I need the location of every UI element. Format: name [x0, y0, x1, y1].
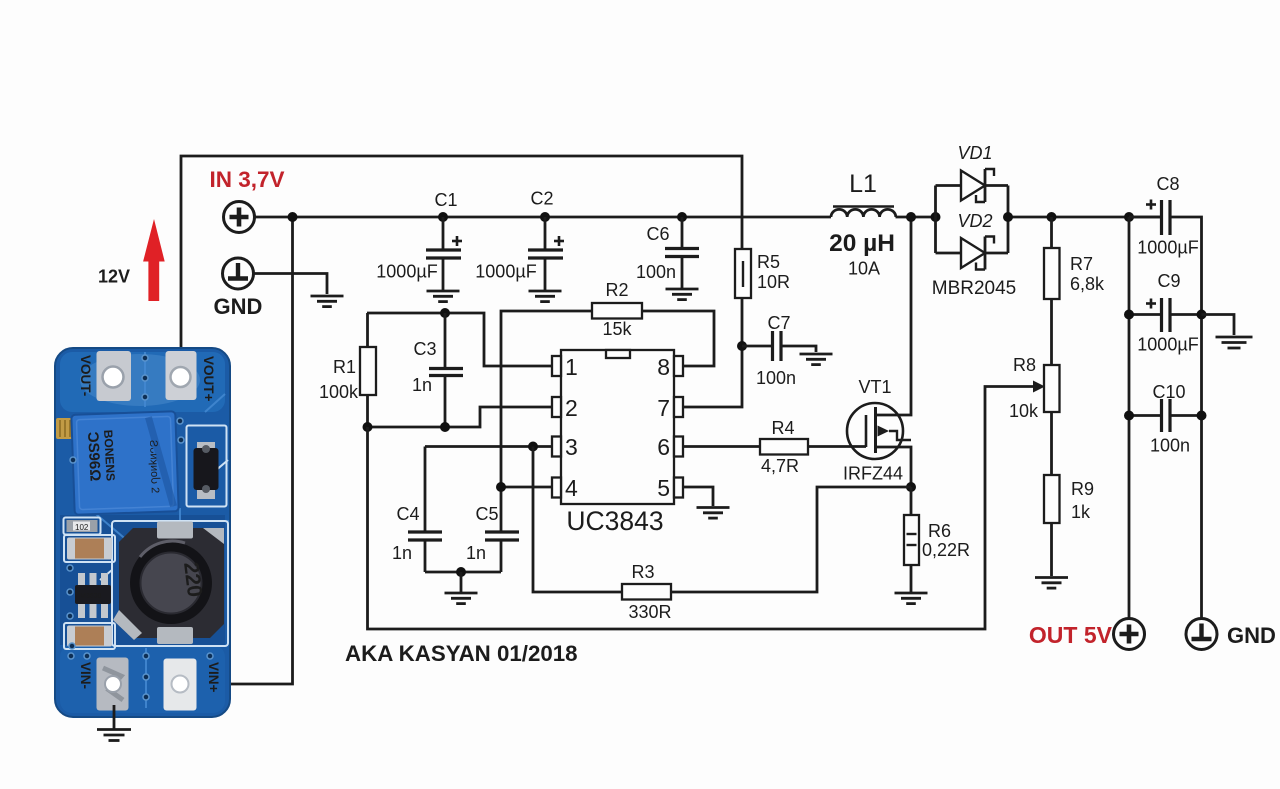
- svg-text:6: 6: [657, 434, 670, 460]
- pin 8 box: [674, 356, 683, 376]
- capacitor C6: [665, 217, 699, 288]
- svg-text:1: 1: [565, 354, 578, 380]
- svg-text:20 µH: 20 µH: [829, 230, 895, 257]
- svg-text:220: 220: [179, 561, 206, 599]
- svg-text:4,7R: 4,7R: [761, 456, 799, 476]
- module inductor winding: [130, 541, 212, 624]
- svg-text:VOUT+: VOUT+: [201, 356, 216, 402]
- svg-text:5: 5: [657, 475, 670, 501]
- module SMD capacitor upper: [67, 538, 112, 560]
- capacitor C5: [485, 487, 519, 572]
- wire: main top rail left: [255, 216, 832, 219]
- node: source/R6 junction: [906, 482, 916, 492]
- wire: R2 left down to pin 4: [501, 311, 592, 487]
- svg-text:R8: R8: [1013, 355, 1036, 375]
- svg-text:8: 8: [657, 354, 670, 380]
- svg-text:7: 7: [657, 395, 670, 421]
- capacitor C1: [426, 217, 462, 290]
- wire: module VIN+ to input + node: [180, 217, 293, 684]
- svg-text:IRFZ44: IRFZ44: [843, 464, 903, 484]
- wire: diode pair right bar: [1007, 186, 1010, 254]
- node: R1 bottom: [363, 422, 373, 432]
- svg-text:10A: 10A: [848, 259, 880, 279]
- resistor R2: [592, 303, 642, 319]
- svg-text:100n: 100n: [756, 368, 796, 388]
- pin 4 box: [552, 478, 561, 498]
- IC U1 UC3843 body: [561, 350, 674, 504]
- module SMD capacitor lower: [67, 626, 112, 647]
- node: C3 bottom: [440, 422, 450, 432]
- capacitor C2: [528, 217, 564, 290]
- svg-text:R7: R7: [1070, 254, 1093, 274]
- svg-text:3: 3: [565, 434, 578, 460]
- svg-text:0,22R: 0,22R: [922, 540, 970, 560]
- svg-text:M3608: M3608: [80, 593, 102, 600]
- 12V arrow: [143, 219, 165, 301]
- ground: R9: [1035, 578, 1068, 589]
- svg-text:BONENS: BONENS: [101, 429, 118, 481]
- ground: R6: [895, 593, 928, 604]
- wire: GND terminal to ground: [254, 274, 328, 295]
- svg-text:C7: C7: [767, 313, 790, 333]
- potentiometer R8: [1033, 365, 1060, 475]
- module pad VIN+: [164, 659, 197, 711]
- svg-text:100n: 100n: [1150, 436, 1190, 456]
- wire: junction stem to ground: [460, 572, 463, 592]
- ground: C6: [666, 289, 699, 300]
- ground: C7: [800, 354, 833, 365]
- wire: pin 6 to R4: [683, 445, 760, 448]
- ground: module: [97, 705, 131, 741]
- wire: pin 4 to timing net: [501, 486, 552, 489]
- svg-text:102: 102: [75, 523, 89, 532]
- wire: FB node to pin 2: [367, 407, 552, 427]
- wire: R4 to gate: [808, 445, 866, 448]
- terminal IN +: [224, 202, 255, 233]
- svg-text:10k: 10k: [1009, 401, 1039, 421]
- node: input junction: [288, 212, 298, 222]
- svg-text:C10: C10: [1152, 382, 1185, 402]
- wire: output left column: [1128, 217, 1131, 618]
- svg-text:C6: C6: [646, 224, 669, 244]
- svg-text:R2: R2: [605, 280, 628, 300]
- module resistor 102: [67, 520, 98, 532]
- module SOT-23 diode body: [194, 442, 219, 499]
- diode VD1 MBR2045: [936, 169, 1009, 202]
- svg-text:VD2: VD2: [957, 211, 992, 231]
- node: C1 tap: [438, 212, 448, 222]
- svg-text:C8: C8: [1156, 174, 1179, 194]
- node: C10 left: [1124, 411, 1134, 421]
- svg-text:2: 2: [565, 395, 578, 421]
- svg-text:R1: R1: [333, 357, 356, 377]
- svg-text:R4: R4: [771, 418, 794, 438]
- node: C9 left: [1124, 310, 1134, 320]
- resistor R9: [1044, 475, 1060, 576]
- svg-text:VD1: VD1: [957, 143, 992, 163]
- resistor R1: [360, 313, 376, 427]
- node: C9 right: [1197, 310, 1207, 320]
- resistor R7: [1044, 217, 1060, 365]
- ground: C4/C5: [445, 593, 478, 604]
- wire: L1 to diode block: [896, 216, 937, 219]
- wire: FB node down and across to R8 wiper: [368, 387, 1034, 630]
- inductor L1: [831, 207, 896, 218]
- svg-text:C4: C4: [396, 504, 419, 524]
- diode VD2 MBR2045: [936, 237, 1009, 270]
- capacitor C10: [1129, 399, 1202, 432]
- node: C2 tap: [540, 212, 550, 222]
- wire: output rail: [1008, 216, 1161, 219]
- pin 5 box: [674, 478, 683, 498]
- wire: R3 left up to pin 3: [533, 447, 622, 593]
- module traces: [60, 352, 228, 708]
- resistor R3: [622, 584, 671, 600]
- wire: pin 3 sense wire: [425, 445, 552, 448]
- capacitor C9: [1129, 298, 1202, 332]
- svg-text:6,8k: 6,8k: [1070, 274, 1105, 294]
- svg-text:1k: 1k: [1071, 502, 1091, 522]
- svg-text:1000µF: 1000µF: [1137, 335, 1198, 355]
- ground: input: [311, 296, 344, 307]
- svg-text:L1: L1: [849, 170, 877, 198]
- pin 3 box: [552, 437, 561, 457]
- node: C10 right: [1197, 411, 1207, 421]
- resistor R6: [904, 487, 919, 592]
- svg-text:C1: C1: [434, 190, 457, 210]
- terminal OUT +: [1114, 619, 1145, 650]
- svg-text:12V: 12V: [98, 267, 130, 287]
- terminal OUT GND: [1186, 619, 1217, 650]
- wire: pin 5 to ground: [683, 487, 713, 506]
- pin 7 box: [674, 397, 683, 417]
- svg-text:ƆS96Ω: ƆS96Ω: [84, 431, 104, 481]
- module pad VIN-: [97, 658, 129, 711]
- wire: C4/C5 bottoms joined: [425, 571, 501, 574]
- svg-text:VOUT-: VOUT-: [78, 355, 93, 396]
- svg-text:AKA KASYAN 01/2018: AKA KASYAN 01/2018: [345, 641, 578, 666]
- node: pin 4 junction: [496, 482, 506, 492]
- terminal IN GND: [223, 258, 254, 289]
- module silkscreen outlines: [64, 426, 229, 650]
- capacitor C8: [1129, 200, 1202, 619]
- ground: output: [1216, 337, 1253, 348]
- wire: diode pair left bar: [934, 186, 937, 254]
- module trimpot screw: [56, 418, 75, 439]
- svg-text:1n: 1n: [412, 375, 432, 395]
- svg-text:GND: GND: [214, 294, 263, 319]
- svg-text:VIN+: VIN+: [206, 662, 221, 693]
- wire: module VOUT+ up to 12V feed: [181, 156, 742, 372]
- module pad VOUT-: [97, 351, 132, 401]
- module pad VOUT+: [166, 351, 197, 400]
- module inductor body: [113, 522, 224, 645]
- wire: sense feedback to R3: [671, 487, 911, 592]
- svg-text:R3: R3: [631, 562, 654, 582]
- svg-text:R9: R9: [1071, 479, 1094, 499]
- ground: C1: [427, 291, 460, 302]
- svg-text:10R: 10R: [757, 272, 790, 292]
- svg-text:GND: GND: [1227, 623, 1276, 648]
- node: R5/C7 junction: [737, 341, 747, 351]
- svg-text:1n: 1n: [466, 543, 486, 563]
- capacitor C3: [429, 313, 463, 427]
- svg-text:4: 4: [565, 475, 578, 501]
- ground: C2: [529, 291, 562, 302]
- svg-text:VIN-: VIN-: [78, 662, 93, 689]
- ground: pin 5: [697, 508, 730, 519]
- resistor R4: [760, 439, 808, 455]
- svg-text:C9: C9: [1157, 271, 1180, 291]
- svg-text:ƧᴗᴎʞᴎoႱ 2: ƧᴗᴎʞᴎoႱ 2: [147, 440, 162, 494]
- capacitor C7: [742, 331, 816, 361]
- node: C3 top tap: [440, 308, 450, 318]
- svg-text:R6: R6: [928, 521, 951, 541]
- module trimpot body: [71, 411, 178, 515]
- svg-text:1000µF: 1000µF: [475, 262, 536, 282]
- wire: R2 right to pin 8: [642, 311, 714, 366]
- node: C6 tap: [677, 212, 687, 222]
- svg-text:1000µF: 1000µF: [1137, 238, 1198, 258]
- pin 2 box: [552, 397, 561, 417]
- resistor R5: [735, 249, 751, 298]
- svg-text:C2: C2: [530, 189, 553, 209]
- svg-text:VT1: VT1: [858, 377, 891, 397]
- wire: C9 right to ground: [1202, 315, 1235, 336]
- capacitor C4: [408, 447, 442, 573]
- svg-text:UC3843: UC3843: [566, 506, 663, 536]
- svg-text:MBR2045: MBR2045: [932, 278, 1017, 299]
- node: timing ground junction: [456, 567, 466, 577]
- svg-text:OUT 5V: OUT 5V: [1029, 622, 1113, 648]
- svg-text:330R: 330R: [628, 602, 671, 622]
- node: diode right bar tap: [1003, 212, 1013, 222]
- svg-text:C3: C3: [413, 339, 436, 359]
- svg-text:C5: C5: [475, 504, 498, 524]
- transistor VT1 IRFZ44: [847, 217, 911, 487]
- node: output left column top: [1124, 212, 1134, 222]
- svg-text:100n: 100n: [636, 262, 676, 282]
- pin 1 box: [552, 356, 561, 376]
- svg-text:1n: 1n: [392, 543, 412, 563]
- pin 6 box: [674, 437, 683, 457]
- svg-text:1000µF: 1000µF: [376, 262, 437, 282]
- node: pin 3 / R3 junction: [528, 442, 538, 452]
- wire: pin 1 to compensation net: [367, 313, 552, 366]
- node: VT1 drain tap: [906, 212, 916, 222]
- module SOT23-6 IC: [75, 573, 111, 618]
- svg-text:15k: 15k: [602, 319, 632, 339]
- node: R7 top tap: [1047, 212, 1057, 222]
- node: diode left bar tap: [931, 212, 941, 222]
- svg-text:R5: R5: [757, 252, 780, 272]
- module vias: [67, 355, 213, 700]
- module PCB board: [55, 348, 230, 717]
- wire: R5 bottom to C7/pin7: [683, 298, 742, 407]
- svg-text:100k: 100k: [319, 382, 359, 402]
- svg-text:IN 3,7V: IN 3,7V: [209, 167, 284, 192]
